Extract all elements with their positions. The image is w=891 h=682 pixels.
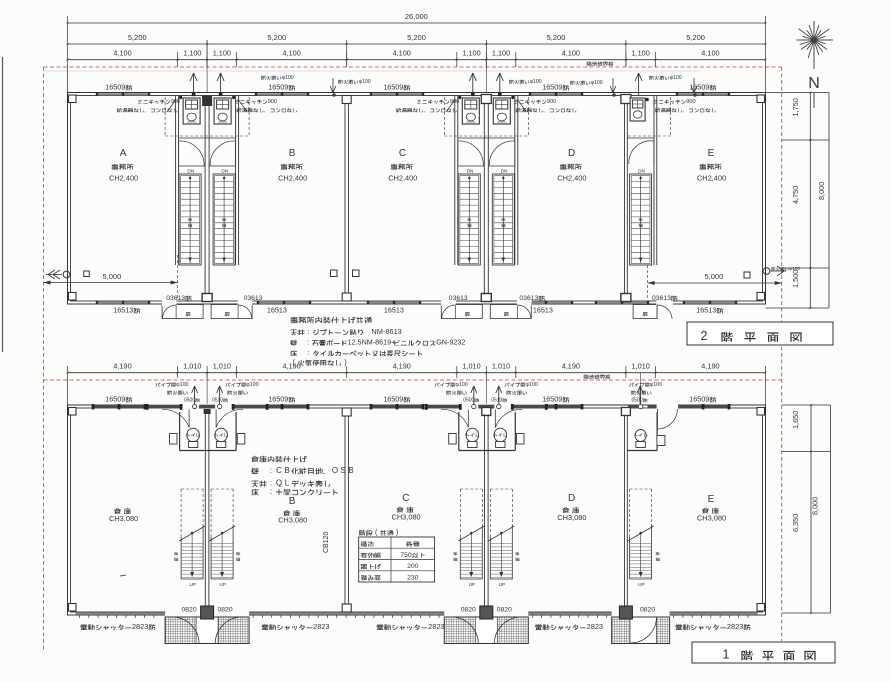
svg-text:16509: 16509 bbox=[689, 83, 709, 92]
1F core E vent + labels bbox=[638, 404, 642, 408]
svg-text:1,010: 1,010 bbox=[492, 362, 510, 371]
svg-text:2823: 2823 bbox=[132, 622, 148, 631]
1F stair A/B break line bbox=[209, 526, 235, 541]
svg-text:4,100: 4,100 bbox=[283, 49, 301, 58]
svg-text:16509: 16509 bbox=[268, 395, 288, 404]
svg-text:2823: 2823 bbox=[428, 622, 444, 631]
svg-text:1: 1 bbox=[723, 648, 730, 662]
2F finish spec text block bbox=[290, 317, 297, 324]
dim row 26000 line bbox=[68, 22, 766, 24]
svg-text:4,190: 4,190 bbox=[701, 362, 719, 371]
2F stair core C/D entry door arcs bbox=[458, 141, 484, 166]
2F stair core A/B center wall bbox=[204, 104, 206, 301]
svg-text:B: B bbox=[289, 148, 296, 159]
svg-text:E: E bbox=[708, 494, 715, 505]
1F dim text 1,650 bbox=[791, 411, 800, 429]
1F core A/B center bottom block bbox=[201, 606, 214, 619]
svg-text:26,000: 26,000 bbox=[405, 12, 428, 21]
1F stair A/B UP arrow bbox=[191, 532, 194, 535]
2F dim text 1,500 bbox=[791, 270, 800, 288]
site boundary label 2F bbox=[587, 61, 592, 65]
2F stair core C/D landing line bbox=[458, 137, 515, 139]
1F core A/B toilets bbox=[187, 428, 200, 442]
1F dim text 6,350 bbox=[791, 514, 800, 532]
svg-text::: : bbox=[307, 348, 309, 357]
svg-text:D: D bbox=[568, 493, 575, 504]
1F dim row line bbox=[68, 372, 766, 374]
2F stair C/D center rail bbox=[502, 176, 504, 263]
2F stair core C/D shaft walls bbox=[454, 96, 456, 266]
1F core A/B north wall segments bbox=[147, 405, 181, 409]
svg-text:16509: 16509 bbox=[542, 83, 562, 92]
svg-text:0820: 0820 bbox=[182, 607, 197, 614]
svg-text:B: B bbox=[348, 466, 353, 475]
2F stair core C/D vent arrows above roof bbox=[472, 73, 474, 95]
svg-text:1,100: 1,100 bbox=[183, 49, 201, 58]
svg-text:16513: 16513 bbox=[533, 306, 553, 315]
svg-text:6,350: 6,350 bbox=[791, 514, 800, 532]
1F core E north wall door opening bbox=[657, 404, 679, 410]
svg-text:0500: 0500 bbox=[184, 398, 195, 404]
2F stair core C/D kitchens bbox=[462, 98, 479, 124]
svg-text:1,100: 1,100 bbox=[632, 49, 650, 58]
1F core E south wall opening at porch bbox=[612, 611, 670, 618]
svg-text:CB120: CB120 bbox=[323, 531, 330, 553]
2F core E porch box bbox=[633, 305, 657, 319]
svg-text::: : bbox=[270, 487, 272, 496]
svg-text:750: 750 bbox=[400, 552, 412, 559]
svg-text:DN: DN bbox=[221, 169, 228, 175]
1F core E toilet enclosure bbox=[656, 412, 658, 451]
svg-text:5,200: 5,200 bbox=[128, 33, 147, 42]
svg-text:C: C bbox=[276, 466, 282, 475]
2F stair core C/D top center block bbox=[481, 95, 491, 104]
svg-text:16509: 16509 bbox=[542, 395, 562, 404]
2F stair core A/B landing line bbox=[179, 137, 236, 139]
site boundary red dashed line right bbox=[781, 67, 783, 641]
1F core C/D toilet door arcs bbox=[441, 409, 468, 427]
2F dim text 4,750 bbox=[791, 186, 800, 204]
2F core C/D south door arcs bbox=[442, 305, 456, 318]
svg-text:GN-9232: GN-9232 bbox=[436, 338, 465, 347]
svg-text:12.5NM-8619+: 12.5NM-8619+ bbox=[348, 338, 396, 347]
2F stair core A/B stair flights bbox=[179, 174, 201, 265]
site boundary red dashed line left bbox=[43, 67, 45, 650]
2F south windows 16513 bbox=[97, 302, 149, 304]
svg-text:φ100: φ100 bbox=[591, 80, 603, 86]
svg-text:900: 900 bbox=[686, 99, 695, 105]
1F core C/D south wall opening at porch bbox=[444, 611, 528, 618]
svg-text:4,750: 4,750 bbox=[791, 186, 800, 204]
svg-text:16513: 16513 bbox=[384, 306, 404, 315]
2F core E kitchen dashed surround bbox=[628, 135, 671, 137]
svg-text:CH3,080: CH3,080 bbox=[697, 514, 726, 523]
1F dim text 8,000 bbox=[810, 497, 819, 515]
1F core A/B toilet enclosure bbox=[179, 412, 181, 451]
svg-text:E: E bbox=[708, 148, 715, 159]
svg-text:C: C bbox=[399, 148, 406, 159]
2F core A/B south wall door openings bbox=[162, 300, 177, 306]
2F stair core A/B kitchens bbox=[183, 98, 200, 124]
2F stair core A/B top center block bbox=[202, 96, 212, 107]
svg-text::: : bbox=[270, 466, 272, 475]
2F right dim lines bbox=[809, 93, 811, 309]
2F corner columns bbox=[69, 95, 77, 103]
svg-text:4,100: 4,100 bbox=[113, 49, 131, 58]
2F stair core C/D bottom column bbox=[481, 294, 491, 302]
svg-text:900: 900 bbox=[547, 99, 556, 105]
2F stair core A/B entry door arcs bbox=[179, 141, 205, 166]
dim row 5200 line bbox=[68, 43, 766, 45]
site boundary label 1F bbox=[584, 374, 589, 378]
svg-text:φ100: φ100 bbox=[670, 75, 682, 81]
2F core A/B south porch boxes bbox=[162, 305, 203, 319]
1F corner columns bbox=[69, 408, 77, 416]
svg-text:φ100: φ100 bbox=[282, 75, 294, 81]
2F fire damper labels top bbox=[261, 76, 266, 80]
svg-text:CH3,080: CH3,080 bbox=[557, 513, 586, 522]
svg-text:0820: 0820 bbox=[497, 607, 512, 614]
svg-text:1,750: 1,750 bbox=[791, 98, 800, 116]
svg-text:2: 2 bbox=[701, 329, 708, 343]
1F core C/D vent arrows bbox=[473, 386, 475, 404]
svg-text:4,100: 4,100 bbox=[562, 49, 580, 58]
2F stair C/D handrail label bbox=[501, 218, 505, 221]
svg-text:): ) bbox=[344, 358, 346, 367]
1F core C/D north wall segments bbox=[426, 405, 460, 409]
north compass stem bbox=[813, 21, 815, 69]
svg-text:1,650: 1,650 bbox=[791, 411, 800, 429]
2F core E bottom column bbox=[621, 294, 631, 302]
svg-text:1,010: 1,010 bbox=[632, 362, 650, 371]
2F stair core C/D kitchen dashed surround bbox=[444, 135, 528, 137]
stair table header bbox=[359, 530, 365, 536]
2F outer wall double-line rectangle bbox=[68, 93, 766, 305]
svg-text:UP: UP bbox=[638, 582, 645, 588]
1F title box bbox=[692, 642, 835, 663]
svg-text:16509: 16509 bbox=[383, 395, 403, 404]
scan artifact small dash bbox=[120, 575, 126, 576]
2F stair A/B handrail label bbox=[188, 218, 192, 221]
svg-text:CH2,400: CH2,400 bbox=[697, 174, 726, 183]
2F wall B/C columns bbox=[342, 96, 351, 104]
svg-text:DN: DN bbox=[638, 169, 645, 175]
scan artifact faint blue line under boundary bbox=[44, 70, 701, 72]
2F stair core A/B mini-kitchen labels bbox=[138, 100, 142, 104]
svg-text:CH2,400: CH2,400 bbox=[557, 174, 586, 183]
svg-text:A: A bbox=[120, 148, 127, 159]
svg-text:03613: 03613 bbox=[519, 295, 538, 302]
svg-text:CH2,400: CH2,400 bbox=[109, 174, 138, 183]
1F core A/B wash basins bbox=[170, 434, 178, 445]
2F core E stair center rail bbox=[640, 176, 642, 263]
svg-text:16509: 16509 bbox=[105, 395, 125, 404]
2F core E top block bbox=[621, 95, 631, 104]
svg-text:Q: Q bbox=[276, 479, 282, 488]
2F stair core A/B shaft walls bbox=[175, 96, 177, 266]
1F core E room door arc bbox=[657, 409, 677, 429]
2F core C/D south wall door openings bbox=[441, 300, 456, 306]
svg-text:5,000: 5,000 bbox=[103, 272, 122, 281]
2F fire damper arrow symbols bbox=[332, 78, 334, 93]
svg-text:CH2,400: CH2,400 bbox=[278, 174, 307, 183]
2F core C/D landing line lower bbox=[458, 165, 485, 167]
north compass star bbox=[814, 39, 833, 41]
dim extension lines + ticks 2F bbox=[206, 40, 208, 67]
1F core C/D porch door arcs bbox=[451, 617, 478, 644]
1F core C/D pipe fan labels bbox=[435, 383, 440, 387]
1F core E toilet bbox=[635, 430, 646, 442]
svg-text:UP: UP bbox=[499, 582, 506, 588]
1F dim extension lines bbox=[177, 366, 179, 378]
svg-text:φ100: φ100 bbox=[455, 382, 467, 388]
svg-text:): ) bbox=[396, 530, 398, 537]
svg-text:03613: 03613 bbox=[244, 295, 263, 302]
1F core C/D north wall white-out bbox=[426, 404, 546, 410]
1F core A/B south wall opening at porch bbox=[165, 611, 249, 618]
svg-text:φ100: φ100 bbox=[650, 382, 662, 388]
svg-text:230: 230 bbox=[407, 574, 419, 581]
svg-text:5,200: 5,200 bbox=[686, 33, 705, 42]
svg-text:5,200: 5,200 bbox=[547, 33, 566, 42]
1F core C/D center wall bbox=[484, 414, 486, 612]
1F core E entrance porch bbox=[612, 617, 670, 644]
1F core E north wall bits bbox=[628, 405, 638, 409]
svg-text:O: O bbox=[332, 466, 338, 475]
svg-text:1,010: 1,010 bbox=[213, 362, 231, 371]
svg-text:4,100: 4,100 bbox=[393, 49, 411, 58]
1F core E bottom block bbox=[619, 606, 632, 619]
1F core C/D toilets bbox=[466, 428, 479, 442]
svg-text:1,100: 1,100 bbox=[213, 49, 231, 58]
svg-text:0500: 0500 bbox=[632, 398, 643, 404]
svg-text:2823: 2823 bbox=[313, 622, 329, 631]
2F stair A/B center rail bbox=[189, 176, 191, 263]
svg-text:L: L bbox=[285, 479, 290, 488]
svg-text:200: 200 bbox=[407, 563, 419, 570]
1F core A/B pipe-fan wall symbols bbox=[192, 404, 196, 408]
2F right wall square bbox=[744, 272, 750, 278]
2F stair core C/D mini-kitchen labels bbox=[417, 100, 421, 104]
svg-text:CH3,080: CH3,080 bbox=[278, 516, 307, 525]
2F stair core A/B kitchen dashed surround bbox=[165, 135, 249, 137]
1F finish spec text block bbox=[251, 456, 258, 462]
svg-text:2823: 2823 bbox=[727, 622, 743, 631]
svg-text:N: N bbox=[808, 75, 820, 92]
1F core C/D toilet enclosure bbox=[458, 412, 460, 451]
2F dim text 8,000 bbox=[817, 182, 826, 200]
svg-text:φ100: φ100 bbox=[359, 79, 371, 85]
2F core E south door arc bbox=[657, 305, 672, 319]
1F core C/D center block bbox=[482, 408, 491, 416]
2F stair C/D center rail bbox=[468, 176, 470, 263]
svg-text:4,100: 4,100 bbox=[701, 49, 719, 58]
site boundary red dashed line top (2F) bbox=[44, 66, 782, 68]
2F left 5,000 dim bbox=[44, 282, 178, 284]
svg-text:B: B bbox=[284, 466, 289, 475]
svg-text:900: 900 bbox=[268, 99, 277, 105]
svg-text:DN: DN bbox=[187, 169, 194, 175]
svg-text:16509: 16509 bbox=[268, 83, 288, 92]
2F stair C/D handrail label bbox=[467, 218, 471, 221]
1F stair C/D break line bbox=[488, 526, 514, 541]
1F core C/D stairs bbox=[460, 488, 482, 490]
svg-text:5,200: 5,200 bbox=[407, 33, 426, 42]
svg-text:0820: 0820 bbox=[461, 607, 476, 614]
2F core E stair flight bbox=[630, 174, 652, 265]
2F stair core C/D center wall bbox=[483, 104, 485, 301]
svg-text:C: C bbox=[402, 493, 409, 504]
2F B/C wall squares at 5000 line bbox=[331, 270, 338, 277]
svg-text::: : bbox=[307, 338, 309, 347]
2F stair core E walls bbox=[624, 96, 626, 302]
svg-text:φ100: φ100 bbox=[789, 266, 800, 271]
svg-text:S: S bbox=[340, 466, 345, 475]
1F core C/D entrance porch hatched bbox=[444, 617, 528, 644]
svg-text:φ100: φ100 bbox=[246, 382, 258, 388]
1F south wall shutter bands bbox=[76, 613, 166, 615]
1F right dim lines bbox=[810, 405, 812, 613]
1F core A/B entrance porch hatched bbox=[165, 617, 249, 644]
2F dim text 1,750 bbox=[791, 98, 800, 116]
1F core C/D wash basins bbox=[449, 434, 457, 445]
1F core E D/E wall bbox=[624, 408, 626, 612]
svg-text:1,100: 1,100 bbox=[462, 49, 480, 58]
svg-text::: : bbox=[307, 327, 309, 336]
svg-text:CH3,080: CH3,080 bbox=[392, 513, 421, 522]
svg-text:8,000: 8,000 bbox=[810, 497, 819, 515]
svg-text:16513: 16513 bbox=[267, 306, 287, 315]
svg-text:1,100: 1,100 bbox=[492, 49, 510, 58]
svg-text:φ100: φ100 bbox=[526, 382, 538, 388]
1F room A label bbox=[114, 508, 121, 514]
2F north windows 16509 bbox=[97, 93, 149, 95]
svg-text:16509: 16509 bbox=[105, 83, 125, 92]
svg-text:CH3,080: CH3,080 bbox=[109, 514, 138, 523]
1F shutter labels bbox=[80, 624, 87, 630]
1F core A/B toilet door arcs bbox=[162, 409, 189, 427]
svg-text:UP: UP bbox=[469, 582, 476, 588]
2F stair core A/B bottom column bbox=[202, 294, 212, 302]
svg-text:4,190: 4,190 bbox=[113, 362, 131, 371]
svg-text:NM-8613: NM-8613 bbox=[371, 327, 401, 336]
svg-text:5,000: 5,000 bbox=[705, 272, 724, 281]
2F core E south wall door opening bbox=[656, 300, 673, 306]
2F core C/D south porch boxes bbox=[441, 305, 482, 319]
1F core C/D center bottom block bbox=[480, 606, 493, 619]
svg-text:D: D bbox=[568, 148, 575, 159]
1F stair C/D break line bbox=[458, 526, 484, 541]
2F core A/B south door arcs bbox=[163, 305, 177, 318]
2F wall B/C bbox=[344, 96, 346, 302]
svg-text:B: B bbox=[289, 496, 296, 507]
1F stair C/D UP arrow bbox=[470, 532, 473, 535]
svg-text:1,500: 1,500 bbox=[791, 270, 800, 288]
svg-text:0500: 0500 bbox=[463, 398, 474, 404]
1F stair C/D handrail labels bbox=[453, 552, 457, 555]
2F core A/B landing line lower bbox=[179, 165, 206, 167]
svg-text:1,010: 1,010 bbox=[183, 362, 201, 371]
svg-text:16509: 16509 bbox=[689, 395, 709, 404]
svg-text:4,190: 4,190 bbox=[562, 362, 580, 371]
1F core A/B porch door arcs bbox=[172, 617, 199, 644]
1F wall B/C bbox=[344, 408, 346, 612]
svg-text:UP: UP bbox=[189, 582, 196, 588]
2F stair A/B handrail label bbox=[222, 218, 226, 221]
1F stair C/D UP arrow bbox=[500, 532, 503, 535]
scan artifact left edge line bbox=[2, 57, 4, 352]
svg-text:03613: 03613 bbox=[449, 295, 468, 302]
2F left wall square bbox=[84, 271, 90, 277]
1F core C/D pipe-fan wall symbols bbox=[472, 404, 476, 408]
svg-text:0820: 0820 bbox=[218, 607, 233, 614]
1F outer wall double-line rectangle bbox=[68, 405, 766, 615]
2F right fire damper symbol bbox=[763, 268, 770, 275]
1F core A/B pipe fan labels bbox=[156, 383, 161, 387]
1F CB120 wall label bbox=[323, 531, 330, 553]
svg-text:0510: 0510 bbox=[491, 398, 502, 404]
svg-text:16513: 16513 bbox=[696, 306, 716, 315]
1F core A/B stairs bbox=[181, 488, 203, 490]
1F stair A/B UP arrow bbox=[221, 532, 224, 535]
1F core A/B center block bbox=[204, 409, 211, 414]
svg-text:φ100: φ100 bbox=[176, 382, 188, 388]
2F stair A/B center rail bbox=[223, 176, 225, 263]
svg-text:2823: 2823 bbox=[587, 622, 603, 631]
2F title box bbox=[687, 322, 833, 345]
svg-text:0510: 0510 bbox=[212, 398, 223, 404]
svg-text:900: 900 bbox=[450, 99, 459, 105]
svg-text:φ100: φ100 bbox=[530, 79, 542, 85]
2F core E vent arrow bbox=[638, 73, 640, 95]
svg-text:5,200: 5,200 bbox=[267, 33, 286, 42]
2F core E landing + door arc bbox=[627, 137, 654, 139]
site boundary red dashed line middle (1F) bbox=[44, 379, 782, 381]
2F left exhaust fan symbol bbox=[63, 271, 70, 278]
svg-text:DN: DN bbox=[467, 169, 474, 175]
1F north wall window bands bbox=[93, 405, 145, 409]
svg-text:UP: UP bbox=[219, 582, 226, 588]
stair spec table bbox=[359, 537, 435, 582]
svg-text:03613: 03613 bbox=[652, 295, 671, 302]
svg-text:03613: 03613 bbox=[166, 295, 185, 302]
1F core A/B vent arrows bbox=[194, 386, 196, 404]
svg-text:16509: 16509 bbox=[383, 83, 403, 92]
2F right 5,000 dim bbox=[648, 282, 782, 284]
svg-text:900: 900 bbox=[171, 99, 180, 105]
1F core A/B center wall bbox=[204, 414, 206, 612]
1F core E wash basin bbox=[657, 436, 665, 446]
svg-text:CH2,400: CH2,400 bbox=[388, 174, 417, 183]
dim row 4100/1100 line bbox=[68, 59, 766, 61]
svg-text:0820: 0820 bbox=[640, 607, 655, 614]
svg-text:1,010: 1,010 bbox=[462, 362, 480, 371]
svg-text:8,000: 8,000 bbox=[817, 182, 826, 200]
2F right fire damper label bbox=[771, 267, 775, 271]
1F core A/B north wall white-out bbox=[147, 404, 267, 410]
2F stair core C/D stair flights bbox=[458, 174, 480, 265]
2F stair core A/B vent arrows above roof bbox=[193, 73, 195, 95]
1F stair A/B break line bbox=[179, 526, 205, 541]
svg-text:16513: 16513 bbox=[113, 306, 133, 315]
svg-text:4,190: 4,190 bbox=[393, 362, 411, 371]
2F core E kitchen labels bbox=[653, 100, 657, 104]
svg-text:DN: DN bbox=[501, 169, 508, 175]
1F stair A/B handrail labels bbox=[174, 552, 178, 555]
2F core E kitchen bbox=[630, 98, 645, 121]
1F core E stair bbox=[630, 488, 652, 490]
